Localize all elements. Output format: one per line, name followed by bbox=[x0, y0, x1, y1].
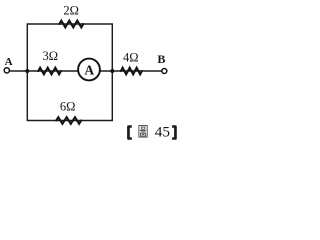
svg-text:45: 45 bbox=[155, 123, 170, 140]
resistor R3 4Ω (right branch) bbox=[121, 68, 142, 75]
svg-text:3Ω: 3Ω bbox=[43, 49, 59, 63]
svg-text:2Ω: 2Ω bbox=[63, 4, 79, 18]
bracket 】 bbox=[172, 125, 177, 140]
svg-text:A: A bbox=[5, 56, 13, 68]
svg-text:A: A bbox=[84, 63, 94, 78]
junction left bus / middle wire bbox=[25, 69, 29, 73]
node B terminal bbox=[162, 69, 167, 74]
resistor R4 6Ω (bottom branch) bbox=[56, 117, 81, 124]
svg-text:6Ω: 6Ω bbox=[60, 100, 76, 114]
junction right bus / middle wire bbox=[110, 69, 114, 73]
wire: outer loop rectangle (top/bottom branches and side buses) bbox=[27, 24, 112, 121]
resistor R1 2Ω (top branch) bbox=[59, 21, 83, 28]
ammeter U1 bbox=[78, 59, 100, 81]
node A terminal bbox=[4, 68, 9, 73]
character 圖 (drawn) bbox=[139, 126, 147, 138]
resistor R2 3Ω (middle branch, left) bbox=[38, 68, 61, 75]
figure caption 【圖 45】 bbox=[127, 123, 177, 140]
wire: middle branch from terminal A through to terminal B bbox=[10, 70, 162, 72]
svg-text:B: B bbox=[157, 52, 165, 66]
svg-text:4Ω: 4Ω bbox=[123, 51, 139, 65]
bracket 【 bbox=[127, 125, 132, 140]
